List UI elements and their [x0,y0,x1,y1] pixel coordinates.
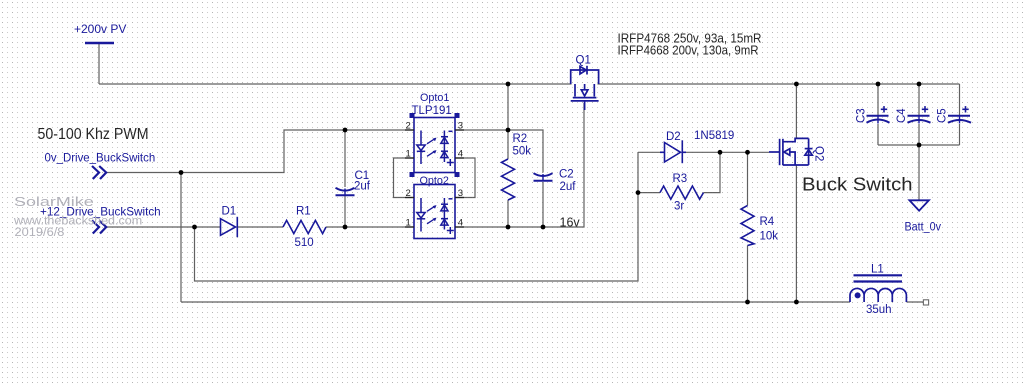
svg-text:Q2: Q2 [813,146,825,161]
wire R2 top riser from rail [507,84,509,159]
wire 16v row to Q1 gate [455,103,584,227]
svg-text:2uf: 2uf [354,181,371,193]
svg-text:1: 1 [406,149,411,160]
junction R2 top [506,128,511,133]
black texts [38,30,913,229]
wire C3 bottom lead [877,124,879,145]
wire C1 top lead [344,130,346,187]
svg-text:TLP191: TLP191 [412,105,452,117]
wire top rail right of Q1 [598,83,960,85]
net port Batt_0v triangle [909,200,929,210]
opto2 internal LED [417,198,425,232]
wire C5 bottom lead [959,124,961,145]
svg-text:0v_Drive_BuckSwitch: 0v_Drive_BuckSwitch [45,151,156,165]
wire left drop to bottom rail [180,173,182,303]
svg-text:16v: 16v [560,216,581,230]
svg-text:C5: C5 [937,108,949,123]
JUNCTIONS-GROUP [179,82,922,305]
junction 0v drop [179,170,184,175]
svg-text:510: 510 [295,237,314,249]
svg-text:D1: D1 [222,206,237,218]
wire C4 bottom lead [918,124,920,145]
junction rail Q2 drain [794,82,799,87]
capacitor C2 [534,173,553,181]
opto2 minus sign [449,198,453,200]
wire Q2 drain [795,84,797,138]
wire C2 bottom lead [542,182,544,227]
svg-text:R3: R3 [673,173,688,185]
junction R4 top [745,150,750,155]
svg-text:50k: 50k [513,146,532,158]
optocoupler U-Opto1 box [414,118,455,173]
svg-text:3: 3 [458,121,463,132]
C3 plus sign [881,106,887,112]
wire 0v net to opto pin2 [107,130,415,173]
svg-text:35uh: 35uh [866,304,892,316]
wire D2 anode lead [638,151,660,153]
junction C1 top [343,128,348,133]
svg-text:SolarMike: SolarMike [14,195,94,209]
svg-text:1: 1 [406,218,411,229]
resistor R2 [502,159,515,200]
wire D1 to R1 [238,226,283,228]
wire C4 top lead [918,84,920,115]
opto1 light arrows [427,138,437,157]
svg-text:C4: C4 [896,108,908,123]
svg-text:R1: R1 [296,206,311,218]
svg-text:10k: 10k [760,231,779,243]
svg-text:3r: 3r [674,201,684,213]
capacitor C4 [908,116,931,124]
wire R3 left lead [638,192,660,194]
junction C2 bottom [541,225,546,230]
resistor R3 [660,186,704,199]
junction rail R2 riser [506,82,511,87]
svg-text:R2: R2 [513,133,528,145]
junction rail C4 [917,82,922,87]
wire +12 net to D1 [107,226,222,228]
opto1 corner pads [410,113,460,177]
wire bottom rail [181,301,850,303]
wire Batt_0v drop [918,145,920,200]
svg-text:Q1: Q1 [576,55,591,67]
svg-text:D2: D2 [666,131,681,143]
svg-text:IRFP4668 200v, 130a, 9mR: IRFP4668 200v, 130a, 9mR [618,43,759,58]
port chevron 0v_Drive_BuckSwitch [92,166,106,179]
wire R2 bottom lead [507,200,509,227]
svg-text:C3: C3 [856,108,868,123]
inductor L1 core bars [854,275,903,281]
C5 plus sign [962,106,968,112]
wire feedback drop D1 junction [195,152,639,281]
svg-text:3: 3 [458,188,463,199]
capacitor C5 [948,116,971,124]
mosfet Q2 [769,138,813,165]
diode D2 [660,140,686,163]
junction Q2 source bottom [794,300,799,305]
svg-text:+200v PV: +200v PV [74,22,126,36]
wire L1 right lead [907,301,924,303]
resistor R4 [741,206,754,246]
wire Q2 source to bottom rail [795,165,797,302]
opto1 minus sign [449,130,453,132]
capacitor C3 [867,116,890,124]
mosfet Q1 [571,66,599,110]
opto1 plus sign [447,159,454,166]
svg-text:Opto1: Opto1 [420,92,449,104]
svg-text:4: 4 [458,218,463,229]
svg-text:2: 2 [406,188,411,199]
resistor R1 [283,220,326,233]
junction +12 drop [192,225,197,230]
wire opto1 pin1 to opto2 pin2 bracket [394,158,415,198]
svg-text:4: 4 [458,149,463,160]
opto pin stubs [405,130,464,227]
opto2 light arrows [427,205,437,224]
C4 plus sign [922,106,928,112]
diode D1 [221,217,238,237]
wire opto1 pin3 to C2 [455,130,543,173]
TEXT-GROUP [13,22,949,316]
wire R4 top lead [747,152,749,205]
wire top rail left of Q1 [99,83,572,85]
opto1 output diode stack [441,131,448,163]
optocoupler U-Opto2 box [414,185,455,239]
opto1 internal LED [417,131,425,165]
wire R3 right lead riser [704,152,721,192]
svg-text:2: 2 [406,121,411,132]
svg-text:Opto2: Opto2 [420,175,449,187]
junction C1 bottom [343,225,348,230]
COMPONENTS-GROUP [85,43,971,305]
wire D2 cathode to Q2 gate [686,151,769,153]
wire +200v PV drop [98,44,100,84]
svg-text:1N5819: 1N5819 [694,130,734,142]
junction R2 bottom [506,225,511,230]
svg-text:50-100 Khz PWM: 50-100 Khz PWM [38,126,149,143]
net port square terminal [923,300,928,305]
watermark [13,195,142,238]
capacitor C1 [336,188,355,196]
svg-text:R4: R4 [760,216,775,228]
opto2 plus sign [447,227,454,234]
svg-text:2uf: 2uf [560,181,577,193]
wire capacitor bottom rail [878,144,960,146]
svg-text:L1: L1 [871,264,884,276]
svg-text:C2: C2 [559,169,574,181]
wire opto1 pin4 to opto2 pin3 bracket [455,158,475,198]
port chevron +12_Drive_BuckSwitch [92,221,106,234]
junction C4 bottom [917,143,922,148]
svg-text:Buck Switch: Buck Switch [802,174,913,195]
wire C5 top drop [959,84,961,115]
inductor L1 polarity dot [855,292,861,298]
inductor L1 coils [850,288,906,302]
wire R4 bottom lead [747,246,749,303]
wire C3 top lead [877,84,879,115]
junction rail C3 [876,82,881,87]
svg-text:2019/6/8: 2019/6/8 [15,225,65,239]
wire C1 bottom lead [344,196,346,227]
wire R1 to opto pin1 [326,226,414,228]
opto2 output diode stack [441,198,448,230]
power port +200v PV bar [85,42,114,45]
junction D2 cathode [718,150,723,155]
junction R3 tap [636,190,641,195]
WIRES-GROUP [99,44,960,302]
junction R4 bottom [745,300,750,305]
svg-text:Batt_0v: Batt_0v [905,222,942,234]
